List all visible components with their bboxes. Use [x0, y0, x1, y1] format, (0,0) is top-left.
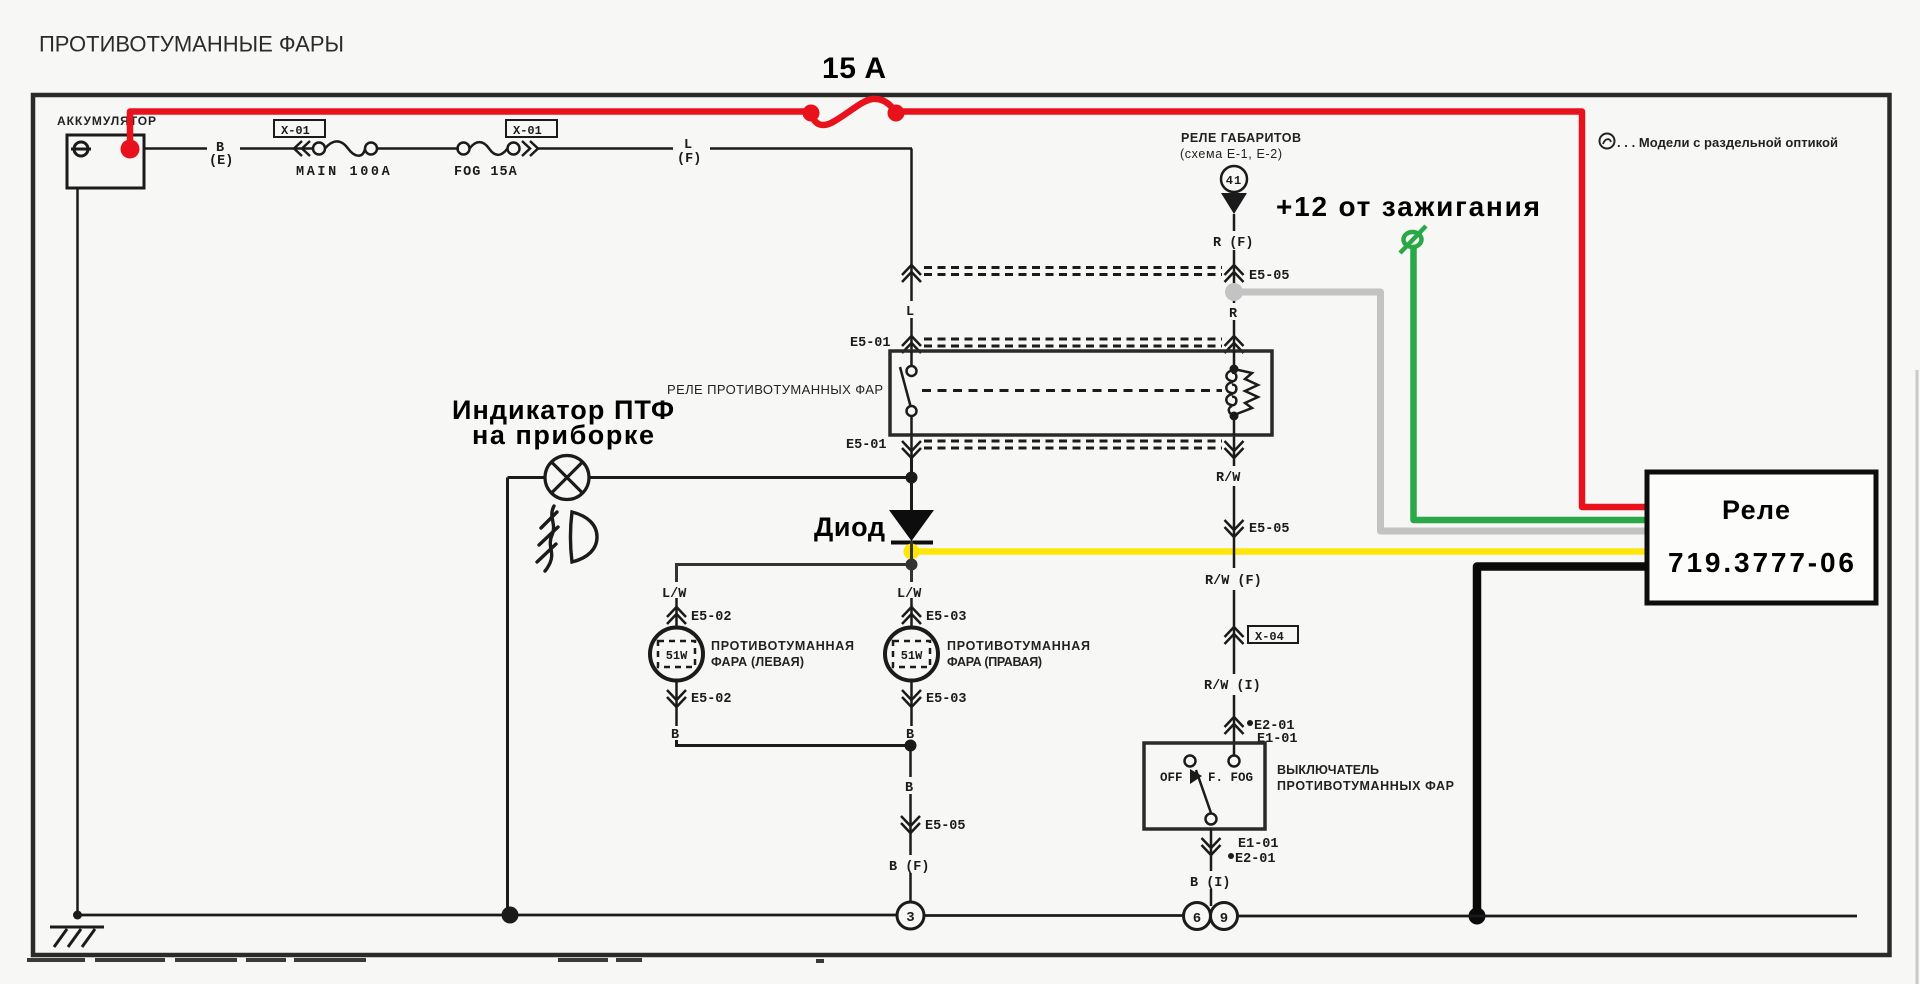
wire R/W below relay [1233, 458, 1236, 466]
wire segments through connectors [911, 264, 1235, 855]
svg-text:OFF: OFF [1160, 771, 1183, 785]
gray annotation wire (to relay 719) [1234, 292, 1648, 531]
wire diode to lamps junction [910, 541, 913, 582]
connector E5-01 dashed bundle lower [924, 441, 1222, 448]
connector E5-02 upper [667, 598, 686, 627]
wire B down [909, 746, 912, 778]
svg-text:6: 6 [1193, 911, 1201, 927]
battery B1 [67, 135, 144, 188]
page bottom cut-off fragments [27, 958, 824, 963]
node junction B wires [905, 740, 917, 752]
diode VD1 [889, 510, 934, 541]
connector E5-05 dashed bundle [924, 268, 1222, 275]
svg-text:Диод: Диод [814, 512, 885, 542]
connector E5-05 (R/W) [1225, 520, 1244, 568]
connector E5-05 chevrons on L wire [902, 265, 921, 282]
wire left lamp B to junction [677, 740, 906, 746]
relay resistor [1234, 369, 1258, 415]
svg-text:F. FOG: F. FOG [1208, 771, 1253, 785]
svg-text:E5-03: E5-03 [926, 692, 967, 707]
red fuse 15A symbol [811, 99, 894, 125]
connector E1-01/E2-01 lower [1202, 838, 1221, 871]
svg-text:FOG 15A: FOG 15A [454, 165, 518, 180]
svg-text:L/W: L/W [897, 587, 922, 602]
svg-text:X-01: X-01 [513, 124, 542, 138]
switch contacts [1185, 756, 1240, 825]
node: junction indicator branch [906, 472, 918, 484]
node lamps branch junction [906, 559, 918, 571]
svg-text:R/W: R/W [1216, 471, 1241, 486]
wire from relay contact to diode node [910, 458, 913, 510]
indicator lamp HL (dash lamp) [545, 456, 589, 500]
wire to ground connectors 6 9 [1210, 889, 1213, 906]
switch SA ВЫКЛЮЧАТЕЛЬ box [1144, 743, 1265, 829]
wire branch to left fog lamp [677, 565, 912, 583]
green tap symbol [1400, 226, 1426, 253]
relay coil junction dots [1230, 365, 1239, 374]
svg-text:X-04: X-04 [1255, 630, 1284, 644]
wire indicator down to ground bus [506, 478, 509, 916]
connector arrows at X-01 right [522, 141, 538, 156]
ground connector circle 6 [1184, 903, 1211, 930]
svg-text:E5-05: E5-05 [1249, 269, 1290, 284]
black junction dot [1469, 908, 1486, 925]
wire battery negative down [76, 188, 79, 915]
svg-text:R/W (I): R/W (I) [1204, 679, 1261, 694]
relay 719.3777-06 box [1647, 472, 1876, 603]
wire to E5-05 [1233, 250, 1236, 264]
svg-text:АККУМУЛЯТОР: АККУМУЛЯТОР [57, 114, 156, 128]
wire below switch [1210, 829, 1213, 838]
svg-text:51W: 51W [666, 649, 688, 663]
connector E5-03 upper [902, 598, 921, 627]
connector E5-01 chevrons upper on R wire [1225, 336, 1244, 353]
svg-text:на приборке: на приборке [472, 420, 654, 450]
node dot at battery ground [73, 911, 82, 920]
wire R mid segment [1233, 282, 1236, 303]
wire indicator branch [589, 476, 912, 479]
connector E5-03 lower [902, 681, 921, 712]
connector E5-05 chevrons on R wire [1225, 265, 1244, 282]
wire L: corner down from top feed [910, 149, 913, 265]
yellow junction dot [904, 544, 920, 560]
svg-text:E2-01: E2-01 [1235, 852, 1276, 867]
svg-text:ФАРА (ПРАВАЯ): ФАРА (ПРАВАЯ) [947, 655, 1042, 669]
connector E5-01 chevrons upper on L wire [902, 336, 921, 353]
svg-text:Реле: Реле [1722, 495, 1790, 525]
connector E5-01 chevrons lower on L wire [902, 441, 921, 458]
page scan edge right [1916, 370, 1919, 984]
svg-text:41: 41 [1226, 174, 1242, 188]
connector triangle (to scheme E-1,E-2) [1221, 193, 1247, 214]
ground connector circle 9 [1211, 903, 1238, 930]
red junction dot at battery [121, 140, 140, 159]
relay coil [1226, 351, 1236, 435]
gray junction dot [1225, 283, 1243, 301]
svg-text:ПРОТИВОТУМАННЫХ ФАР: ПРОТИВОТУМАННЫХ ФАР [1277, 779, 1454, 793]
svg-text:E5-05: E5-05 [1249, 522, 1290, 537]
svg-text:15 A: 15 A [822, 52, 886, 85]
relay internal dashed link [922, 389, 1222, 392]
fuse FOG 15A [458, 142, 520, 155]
svg-text:E5-01: E5-01 [846, 438, 887, 453]
red annotation wire from battery [130, 112, 1648, 508]
green annotation wire (+12 ignition) [1414, 247, 1649, 520]
svg-text:ПРОТИВОТУМАННАЯ: ПРОТИВОТУМАННАЯ [947, 639, 1090, 653]
svg-text:E5-01: E5-01 [850, 336, 891, 351]
svg-text:+12 от зажигания: +12 от зажигания [1276, 191, 1540, 222]
svg-text:R: R [1229, 307, 1238, 322]
svg-text:ПРОТИВОТУМАННАЯ: ПРОТИВОТУМАННАЯ [711, 639, 854, 653]
node dot indicator ground [502, 907, 519, 924]
svg-text:L: L [906, 305, 914, 320]
svg-text:719.3777-06: 719.3777-06 [1668, 547, 1854, 578]
yellow annotation wire [912, 548, 1649, 555]
black annotation wire to ground [1477, 567, 1648, 913]
svg-text:3: 3 [906, 910, 914, 926]
svg-text:E5-02: E5-02 [691, 692, 732, 707]
svg-text:51W: 51W [901, 649, 923, 663]
svg-text:B (F): B (F) [889, 860, 930, 875]
ground connector circle 3 [897, 902, 924, 929]
wire battery to fuse (top feed) [144, 147, 912, 150]
wire to X-04 [1233, 590, 1236, 626]
connector E2-01/E1-01 upper [1225, 717, 1244, 756]
ground bus wire [78, 915, 1858, 916]
svg-text:. . . Модели с раздельной опти: . . . Модели с раздельной оптикой [1617, 135, 1838, 150]
svg-text:E1-01: E1-01 [1238, 837, 1279, 852]
fog lamp right EL2 [885, 628, 938, 681]
svg-text:R/W (F): R/W (F) [1205, 574, 1262, 589]
fog lamp left EL1 [650, 628, 703, 681]
svg-text:E5-03: E5-03 [926, 610, 967, 625]
svg-text:B: B [905, 781, 913, 796]
svg-text:ПРОТИВОТУМАННЫЕ ФАРЫ: ПРОТИВОТУМАННЫЕ ФАРЫ [39, 32, 344, 57]
svg-text:E5-02: E5-02 [691, 610, 732, 625]
svg-text:X-01: X-01 [281, 124, 310, 138]
wire L mid segment [910, 282, 913, 301]
footnote models with separate optics [1600, 134, 1839, 151]
connector E5-01 chevrons lower on R wire [1225, 441, 1244, 458]
svg-text:B (I): B (I) [1190, 876, 1231, 891]
svg-text:L/W: L/W [662, 587, 687, 602]
wire to switch [1233, 695, 1236, 716]
ground symbol [50, 927, 104, 947]
svg-text:R (F): R (F) [1213, 236, 1254, 251]
svg-text:(F): (F) [677, 152, 701, 167]
connector E5-02 lower [667, 681, 686, 712]
connector E5-01 dashed bundle upper [924, 339, 1222, 346]
svg-text:9: 9 [1220, 911, 1228, 927]
svg-text:(E): (E) [209, 154, 233, 169]
connector X-01 (left) [274, 120, 325, 138]
svg-text:ФАРА (ЛЕВАЯ): ФАРА (ЛЕВАЯ) [711, 655, 804, 669]
icon fog lamp symbol [537, 506, 597, 571]
connector circle 41 [1221, 166, 1247, 192]
switch OFF arrow [1190, 769, 1202, 784]
wire to ground connector 3 [909, 873, 912, 902]
connector X-04 [1225, 627, 1244, 674]
svg-text:L: L [684, 138, 692, 153]
connector E5-05 lower [901, 816, 920, 855]
relay contact (switch) [900, 351, 917, 435]
svg-text:(схема Е-1, Е-2): (схема Е-1, Е-2) [1180, 147, 1282, 161]
svg-text:E5-05: E5-05 [925, 819, 966, 834]
svg-text:РЕЛЕ ПРОТИВОТУМАННЫХ ФАР: РЕЛЕ ПРОТИВОТУМАННЫХ ФАР [667, 382, 883, 397]
svg-text:РЕЛЕ ГАБАРИТОВ: РЕЛЕ ГАБАРИТОВ [1181, 131, 1301, 145]
fuse MAIN 100A [313, 141, 377, 155]
connector X-01 (right) [506, 120, 557, 138]
connector arrows at X-01 left [294, 141, 310, 156]
svg-text:ВЫКЛЮЧАТЕЛЬ: ВЫКЛЮЧАТЕЛЬ [1277, 763, 1379, 777]
wire R(F) [1233, 214, 1236, 231]
relay К1 РЕЛЕ ПРОТИВОТУМАННЫХ ФАР box [890, 351, 1272, 435]
svg-text:MAIN 100A: MAIN 100A [296, 165, 392, 180]
